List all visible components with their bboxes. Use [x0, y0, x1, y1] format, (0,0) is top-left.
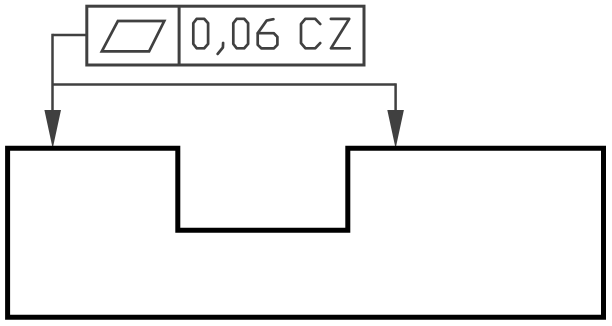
glyph C: [301, 19, 320, 49]
right leader arrowhead: [387, 110, 404, 149]
feature control frame outer box: [87, 6, 364, 65]
part profile outline (notched block): [8, 148, 604, 317]
leader: left vertical drop: [51, 34, 54, 111]
leader: horizontal from frame left edge: [53, 34, 87, 37]
left leader arrowhead: [44, 110, 61, 149]
glyph 0 (first): [193, 19, 208, 49]
flatness symbol (parallelogram): [102, 21, 165, 51]
leader: horizontal branch to right arrow: [53, 83, 396, 86]
feature control frame cell divider: [178, 6, 181, 65]
glyph 0 (second): [233, 19, 248, 49]
glyph 6: [258, 33, 278, 48]
tolerance text 0,06 CZ (stroked CAD-style glyphs): [193, 19, 349, 54]
glyph Z: [331, 19, 350, 48]
leader: right vertical drop: [394, 83, 397, 111]
glyph comma: [218, 43, 223, 54]
